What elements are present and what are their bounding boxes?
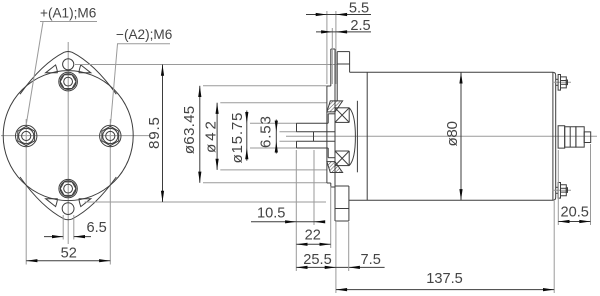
flange plate right face (334, 49, 336, 221)
top tab hole (63, 59, 74, 70)
bottom tab hole (62, 203, 74, 215)
dimension 10.5 extension lines (295, 150, 297, 271)
terminal bolt A2 bore (106, 131, 115, 140)
motor body left seam (366, 72, 368, 200)
svg-text:137.5: 137.5 (426, 271, 463, 287)
shaft bore lines through collar (314, 131, 336, 133)
left bolt vertical centerline / dim 52 extension line left (25, 119, 27, 265)
flange plate upper left face (330, 49, 332, 86)
top through-bolt hex (60, 75, 76, 89)
top through-bolt bore (64, 77, 73, 86)
dimension 5.5 extension lines (326, 11, 328, 84)
terminal bolt A1 ring (19, 128, 34, 143)
svg-text:2.5: 2.5 (350, 18, 370, 34)
bottom mounting ear block (335, 185, 349, 187)
dimension 10.5 line and arrows (251, 221, 325, 223)
side view horizontal centerline (286, 135, 597, 137)
top through-bolt ring (60, 74, 76, 90)
terminal bolt A2 hex (102, 126, 119, 145)
dimension 22 extension line (330, 186, 332, 248)
motor body circle (front view) (3, 71, 133, 201)
dimension 52 line and arrows (26, 260, 110, 262)
dimension 6.5 line and arrows (44, 236, 63, 238)
svg-text:−(A2);M6: −(A2);M6 (116, 27, 172, 42)
front view horizontal centerline (1, 135, 151, 137)
terminal bolt A1 outer circle (16, 125, 37, 146)
leader line for +(A1);M6 (40, 21, 97, 23)
top through-bolt outer circle (59, 72, 78, 91)
motor body outline (349, 72, 556, 200)
flange plate top cap (331, 48, 335, 50)
dimension 25.5 extension line (335, 222, 337, 293)
svg-text:10.5: 10.5 (257, 206, 285, 222)
svg-text:5.5: 5.5 (349, 1, 369, 17)
drive fork bottom prong (297, 147, 329, 149)
dimension 20.5 extension lines (557, 150, 559, 225)
svg-text:ø42: ø42 (203, 121, 220, 153)
svg-text:6.53: 6.53 (258, 116, 275, 148)
flange spigot left face (326, 86, 328, 183)
top mounting tab outline (20, 51, 116, 94)
dimension 2.5 extension line (331, 28, 333, 84)
dimension 137.5 extension line (553, 201, 555, 293)
bottom terminal stud centerline (552, 189, 571, 191)
terminal bolt A2 ring (103, 128, 118, 143)
dimension 2.5 line and arrows (316, 31, 371, 33)
dimension 22 line and arrows (296, 243, 330, 245)
dimension dia80 line and arrows (460, 72, 462, 200)
svg-text:52: 52 (61, 246, 77, 262)
dimension 137.5 line and arrows (336, 289, 554, 291)
dimension 6.53 line and arrows (275, 120, 277, 154)
top tab right cutout (79, 65, 91, 73)
dimension 6.53 extension lines (280, 131, 297, 133)
lower hatched flange section (327, 162, 343, 173)
bottom mounting tab outline (20, 177, 116, 220)
dimension 7.5 extension line (348, 222, 350, 271)
svg-text:+(A1);M6: +(A1);M6 (40, 5, 96, 20)
dimension dia15.75 line and arrows (246, 111, 248, 161)
dimension dia63.45 extension lines (203, 85, 327, 87)
dimension 89.5 line and arrows (162, 65, 164, 203)
dimension 25.5 and 7.5 line and arrows (296, 266, 384, 268)
bottom tab left cutout (46, 199, 58, 207)
flange spigot step top (327, 85, 331, 87)
terminal bolt A1 bore (22, 131, 31, 140)
flange spigot step bottom (327, 182, 331, 184)
bearing support cup edge (356, 101, 358, 173)
svg-text:22: 22 (305, 228, 321, 244)
bottom through-bolt outer circle (59, 179, 77, 197)
leader line for -(A2);M6 (117, 43, 170, 45)
svg-text:20.5: 20.5 (560, 205, 588, 221)
bottom tab right cutout (79, 199, 91, 207)
flange plate lower left face (330, 183, 332, 187)
svg-text:ø80: ø80 (444, 121, 461, 147)
svg-text:7.5: 7.5 (361, 252, 381, 268)
top tab left cutout (46, 65, 58, 73)
upper bearing section box (335, 108, 349, 123)
terminal bolt A1 hex (18, 126, 35, 145)
bottom through-bolt hex (60, 182, 76, 196)
top terminal stud (556, 75, 568, 91)
svg-text:25.5: 25.5 (303, 252, 331, 268)
bottom through-bolt ring (60, 181, 76, 197)
drive fork top prong (297, 122, 329, 124)
top terminal stud centerline (552, 81, 571, 83)
svg-text:ø63.45: ø63.45 (181, 106, 198, 155)
dimension dia42 line and arrows (216, 103, 218, 170)
bearing boss dome (349, 108, 355, 166)
dimension 5.5 line and arrows (306, 14, 371, 16)
dimension dia15.75 extension lines (250, 122, 297, 124)
svg-text:ø15.75: ø15.75 (229, 113, 246, 164)
dimension dia63.45 line and arrows (199, 86, 201, 183)
motor body right end-cap seam (552, 72, 554, 200)
fork collar (327, 114, 329, 123)
dimension dia42 extension lines (220, 102, 327, 104)
lower bearing section box (335, 151, 349, 166)
svg-text:89.5: 89.5 (146, 117, 163, 149)
svg-text:6.5: 6.5 (87, 220, 107, 236)
terminal bolt A2 outer circle (100, 125, 121, 146)
main terminal stud B+ (558, 126, 591, 148)
front view vertical centerline (67, 42, 69, 244)
top boss block (337, 51, 349, 53)
upper hatched flange section (327, 101, 343, 112)
right bolt vertical centerline / dim 52 extension line right (109, 119, 111, 265)
dimension 6.5 extension lines (62, 215, 64, 240)
bottom terminal stud (556, 183, 568, 199)
dimension 20.5 line and arrows (558, 221, 590, 223)
dimension 89.5 extension lines (75, 64, 337, 66)
drive fork slot end (313, 132, 315, 142)
bottom through-bolt bore (64, 184, 73, 193)
